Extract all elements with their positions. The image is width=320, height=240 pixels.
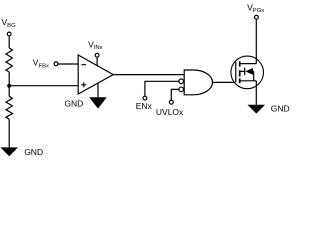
svg-text:ENx: ENx: [136, 101, 153, 111]
svg-text:VFBx: VFBx: [33, 58, 49, 70]
svg-text:VINx: VINx: [88, 39, 103, 51]
svg-text:GND: GND: [24, 147, 43, 157]
svg-text:VPGx: VPGx: [247, 3, 264, 15]
svg-text:UVLOx: UVLOx: [156, 107, 184, 117]
svg-text:GND: GND: [64, 98, 83, 108]
svg-text:VBG: VBG: [2, 17, 17, 29]
svg-text:GND: GND: [271, 104, 290, 114]
